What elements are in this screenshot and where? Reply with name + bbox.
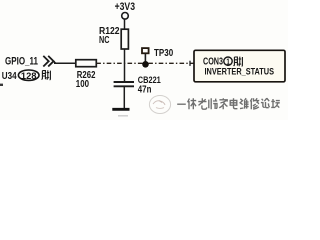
svg-text:128: 128: [21, 71, 37, 82]
svg-text:TP30: TP30: [154, 48, 174, 59]
svg-text:NC: NC: [99, 35, 110, 46]
svg-text:U34: U34: [2, 70, 17, 82]
svg-text:1: 1: [226, 57, 230, 66]
svg-text:GPIO_11: GPIO_11: [5, 56, 38, 68]
svg-text:100: 100: [76, 79, 90, 90]
svg-text:CB221: CB221: [138, 75, 161, 85]
svg-text:47n: 47n: [138, 85, 152, 96]
svg-text:+3V3: +3V3: [115, 1, 135, 13]
svg-text:INVERTER_STATUS: INVERTER_STATUS: [205, 66, 275, 77]
